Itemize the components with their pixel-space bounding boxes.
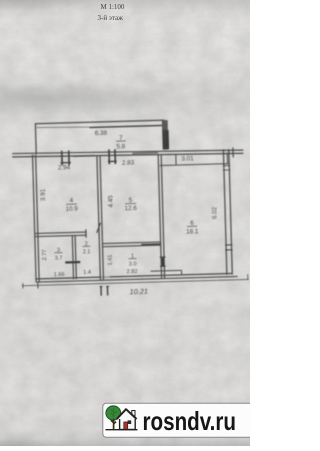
svg-text:10.21: 10.21 (129, 287, 148, 297)
svg-text:3.7: 3.7 (55, 256, 63, 262)
svg-text:М 1:100: М 1:100 (101, 3, 125, 11)
svg-text:1.66: 1.66 (54, 272, 65, 278)
svg-text:rosndv.ru: rosndv.ru (143, 406, 237, 436)
svg-text:3.0: 3.0 (129, 262, 137, 268)
svg-text:3.01: 3.01 (181, 155, 194, 162)
svg-text:3.91: 3.91 (40, 188, 47, 201)
svg-text:18.1: 18.1 (186, 228, 199, 235)
svg-text:2.82: 2.82 (127, 269, 138, 275)
svg-text:0.86: 0.86 (162, 128, 168, 139)
svg-text:2.83: 2.83 (122, 159, 135, 166)
svg-text:1.4: 1.4 (83, 270, 91, 276)
svg-text:1.41: 1.41 (108, 254, 114, 265)
svg-text:2.94: 2.94 (58, 164, 71, 171)
svg-text:6.02: 6.02 (211, 206, 218, 219)
svg-text:3-й этаж: 3-й этаж (98, 14, 124, 22)
svg-text:2.1: 2.1 (83, 249, 91, 255)
svg-text:4.45: 4.45 (107, 195, 114, 208)
svg-text:6.38: 6.38 (95, 130, 108, 137)
svg-text:12.6: 12.6 (124, 205, 137, 212)
svg-text:10.9: 10.9 (65, 205, 78, 212)
svg-text:2.77: 2.77 (42, 249, 48, 260)
svg-text:5.8: 5.8 (116, 143, 125, 150)
